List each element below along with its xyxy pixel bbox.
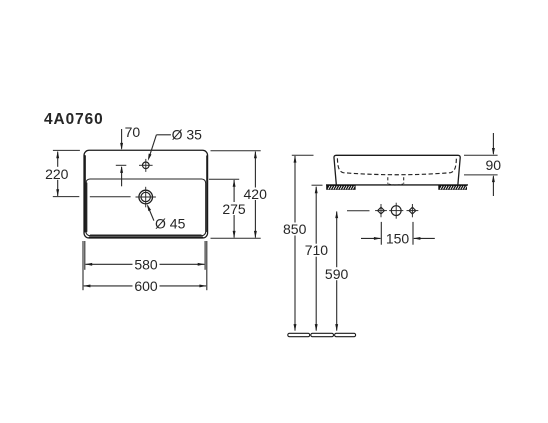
svg-text:90: 90	[486, 157, 502, 173]
dimension 275 (inner bowl depth)	[209, 179, 248, 238]
svg-text:420: 420	[244, 186, 268, 202]
svg-text:275: 275	[222, 201, 246, 217]
wall tap hole right (diamond)	[407, 204, 419, 217]
dimension 420 (right overall depth)	[211, 151, 268, 239]
drain outline dashed (side view)	[388, 177, 404, 185]
drain hole (plan view)	[136, 187, 156, 208]
basin outline (side view)	[334, 155, 460, 184]
tap hole (plan view)	[139, 159, 153, 172]
basin inner bowl (plan view)	[86, 179, 206, 236]
svg-text:850: 850	[283, 221, 307, 237]
label Ø 35 (tap hole) with leader	[148, 127, 202, 161]
svg-text:600: 600	[134, 278, 158, 294]
floor line (three pads)	[288, 333, 356, 336]
dimension 590 (floor to tap holes)	[325, 211, 370, 332]
dimension 90 (basin height)	[464, 133, 501, 196]
countertop surface line	[326, 184, 468, 186]
svg-text:4A0760: 4A0760	[44, 111, 104, 128]
drain centreline into basin	[90, 196, 131, 198]
counter section hatch block left	[326, 185, 355, 190]
svg-text:70: 70	[125, 124, 141, 140]
dimension 220 (left)	[44, 150, 80, 196]
dimension 70 (tap hole offset)	[116, 124, 141, 186]
dimension 850 (floor to rim)	[283, 155, 314, 331]
basin outer rim (plan view)	[84, 150, 208, 238]
svg-text:150: 150	[386, 230, 410, 246]
svg-text:590: 590	[325, 266, 349, 282]
wall tap hole left (diamond)	[375, 204, 387, 217]
label Ø 45 (drain hole) with leader	[147, 204, 186, 231]
counter section hatch block right	[438, 185, 467, 190]
wall spout hole centre (circle)	[389, 203, 403, 219]
dimension 710 (floor to counter)	[305, 185, 329, 331]
svg-text:220: 220	[45, 166, 69, 182]
dimension 600 (overall width)	[83, 241, 207, 294]
svg-text:710: 710	[305, 242, 329, 258]
product code 4A0760	[44, 111, 104, 128]
svg-text:580: 580	[134, 256, 158, 272]
dimension 580 (inner width)	[85, 241, 205, 272]
svg-text:Ø 45: Ø 45	[155, 215, 186, 231]
svg-text:Ø 35: Ø 35	[172, 127, 203, 143]
inner bowl profile dashed (side view)	[337, 158, 456, 174]
dimension 150 (tap hole spacing)	[361, 222, 435, 246]
